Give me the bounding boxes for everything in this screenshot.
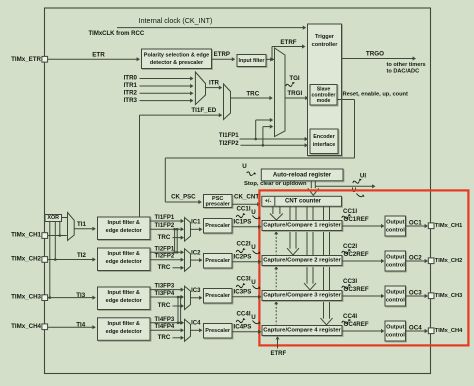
svg-text:OC1REF: OC1REF xyxy=(344,216,369,223)
svg-text:TI2FP2: TI2FP2 xyxy=(219,141,239,147)
svg-text:OC3: OC3 xyxy=(409,289,422,296)
block input filter and edge detector 4 xyxy=(99,319,152,342)
svg-text:TIMx_CH1: TIMx_CH1 xyxy=(435,223,463,229)
svg-text:edge detector: edge detector xyxy=(106,298,143,304)
svg-text:TI1: TI1 xyxy=(77,221,86,228)
svg-text:TIMx_CH2: TIMx_CH2 xyxy=(11,256,41,263)
svg-text:TIMx_CH2: TIMx_CH2 xyxy=(435,258,463,264)
svg-text:XOR: XOR xyxy=(47,215,59,221)
svg-text:TRC: TRC xyxy=(158,302,171,309)
svg-text:TRC: TRC xyxy=(246,90,259,97)
wire counter bus 4 (double line with open arrow) xyxy=(323,206,325,318)
svg-text:TGI: TGI xyxy=(289,75,300,82)
svg-text:IC2: IC2 xyxy=(191,251,201,257)
svg-text:prescaler: prescaler xyxy=(205,202,230,208)
block capture/compare 3 register xyxy=(263,292,343,302)
wire CK_INT to trigger controller xyxy=(117,27,305,29)
svg-text:TI3FP4: TI3FP4 xyxy=(155,291,175,297)
wire double arrow auto-reload to CNT counter xyxy=(310,181,312,189)
svg-text:Prescaler: Prescaler xyxy=(205,293,231,299)
pin TIMx_CH2 (output) xyxy=(428,258,434,264)
svg-text:TIMxCLK from RCC: TIMxCLK from RCC xyxy=(89,31,145,37)
svg-text:+/-: +/- xyxy=(265,199,272,205)
svg-text:OC2REF: OC2REF xyxy=(344,251,369,258)
svg-text:TRGO: TRGO xyxy=(366,50,384,57)
svg-text:Input filter &: Input filter & xyxy=(108,220,140,226)
block output control 3 xyxy=(386,287,407,307)
svg-text:CC4I: CC4I xyxy=(236,311,250,318)
svg-text:Encoder: Encoder xyxy=(313,134,335,140)
svg-text:edge detector: edge detector xyxy=(106,259,143,265)
svg-text:TIMx_CH3: TIMx_CH3 xyxy=(11,294,41,301)
wire counter bus 2 (double line with open arrow) xyxy=(289,206,291,248)
svg-text:ITR0: ITR0 xyxy=(124,75,138,82)
mux ITR selector xyxy=(195,72,205,105)
svg-text:Capture/Compare 2 register: Capture/Compare 2 register xyxy=(263,258,341,264)
block output control 1 xyxy=(386,217,407,237)
svg-text:CC1I: CC1I xyxy=(236,206,250,213)
svg-text:controller: controller xyxy=(312,42,339,48)
wire XOR output to TI1 mux xyxy=(62,217,68,219)
svg-text:Auto-reload register: Auto-reload register xyxy=(273,172,332,179)
svg-text:OC2: OC2 xyxy=(409,254,422,261)
svg-text:OC4REF: OC4REF xyxy=(344,321,369,328)
svg-text:IC3: IC3 xyxy=(191,288,201,294)
block input filter and edge detector 1 xyxy=(99,218,152,241)
block trigger controller xyxy=(309,25,343,157)
svg-text:control: control xyxy=(386,263,405,269)
svg-text:edge detector: edge detector xyxy=(106,228,143,234)
svg-text:control: control xyxy=(386,333,405,339)
svg-text:Input filter: Input filter xyxy=(239,58,265,64)
svg-text:Input filter &: Input filter & xyxy=(108,251,140,257)
svg-text:Capture/Compare 4 register: Capture/Compare 4 register xyxy=(263,328,341,334)
svg-text:Internal clock (CK_INT): Internal clock (CK_INT) xyxy=(139,17,213,25)
block capture/compare 1 register xyxy=(263,222,343,232)
svg-text:CK_PSC: CK_PSC xyxy=(171,194,196,200)
mux IC4 selector xyxy=(185,319,191,341)
svg-text:ITR: ITR xyxy=(209,79,219,86)
svg-text:TRGI: TRGI xyxy=(287,90,302,97)
svg-text:Output: Output xyxy=(386,255,404,261)
svg-text:UI: UI xyxy=(360,172,366,179)
red highlight box around capture/compare section xyxy=(259,190,468,345)
block input filter (ETR) xyxy=(238,56,267,68)
wire counter bus 3 (double line with open arrow) xyxy=(306,206,308,283)
svg-text:CC2I: CC2I xyxy=(236,241,250,248)
svg-text:Polarity selection & edge: Polarity selection & edge xyxy=(144,52,209,58)
svg-text:TRC: TRC xyxy=(158,234,171,241)
svg-text:IC2PS: IC2PS xyxy=(234,254,252,261)
svg-text:edge detector: edge detector xyxy=(106,329,143,335)
svg-text:ITR3: ITR3 xyxy=(124,97,138,104)
wire dashed compare feedback 3 xyxy=(275,304,277,325)
block encoder interface xyxy=(311,130,339,155)
block output control 4 xyxy=(386,322,407,342)
block capture/compare 2 register xyxy=(263,257,343,267)
svg-text:ETR: ETR xyxy=(92,52,105,59)
block input filter and edge detector 3 xyxy=(99,288,152,311)
svg-text:interface: interface xyxy=(313,142,335,148)
svg-text:TI4FP3: TI4FP3 xyxy=(155,317,175,323)
wire cross-connect TI3FP4/TI4FP3 xyxy=(177,297,179,323)
svg-text:TRC: TRC xyxy=(158,264,171,271)
svg-text:IC4: IC4 xyxy=(191,321,201,327)
svg-text:ITR1: ITR1 xyxy=(124,82,138,89)
wire counter bus 1 (double line with open arrow) xyxy=(272,206,274,214)
block polarity selection and edge detector and prescaler xyxy=(143,50,213,70)
wire XOR input from CH1 xyxy=(59,222,61,236)
svg-text:CC4I: CC4I xyxy=(343,313,357,320)
outer border frame of TIMx block xyxy=(45,8,431,374)
svg-text:TI1FP2: TI1FP2 xyxy=(155,223,175,229)
svg-text:to DAC/ADC: to DAC/ADC xyxy=(387,69,420,75)
wire ETRF to capture/compare 4 xyxy=(277,337,279,349)
svg-text:IC4PS: IC4PS xyxy=(234,324,252,331)
mux TRC selector xyxy=(224,84,231,120)
svg-text:TIMx_CH4: TIMx_CH4 xyxy=(435,328,463,334)
svg-text:control: control xyxy=(386,298,405,304)
wire dashed compare feedback 1 xyxy=(275,234,277,255)
pin TIMx_CH4 (output) xyxy=(428,328,434,334)
mux IC2 selector xyxy=(185,249,191,271)
svg-text:Output: Output xyxy=(386,325,404,331)
svg-text:CC3I: CC3I xyxy=(343,278,357,285)
svg-text:to other timers: to other timers xyxy=(387,62,426,68)
svg-text:CC3I: CC3I xyxy=(236,276,250,283)
wire ETRF to trigger controller and to TRGI mux xyxy=(266,58,274,60)
svg-text:OC3REF: OC3REF xyxy=(344,286,369,293)
svg-text:Prescaler: Prescaler xyxy=(205,223,231,229)
svg-text:TI1FP1: TI1FP1 xyxy=(219,133,239,139)
block prescaler IC4 xyxy=(205,325,234,340)
svg-text:TI1F_ED: TI1F_ED xyxy=(191,107,216,114)
svg-text:TIMx_ETR: TIMx_ETR xyxy=(11,56,41,63)
block output control 2 xyxy=(386,252,407,272)
svg-text:ITR2: ITR2 xyxy=(124,90,138,97)
wire TI1 from mux to input filter xyxy=(74,228,94,230)
svg-text:TIMx_CH4: TIMx_CH4 xyxy=(11,323,41,330)
wire XOR input from CH3 xyxy=(49,222,51,298)
svg-text:U: U xyxy=(251,244,256,251)
svg-text:ETRF: ETRF xyxy=(280,39,296,46)
svg-text:TI2FP1: TI2FP1 xyxy=(155,246,175,252)
svg-text:U: U xyxy=(242,163,247,170)
block CNT counter xyxy=(263,197,343,207)
svg-text:Trigger: Trigger xyxy=(315,34,335,40)
svg-text:control: control xyxy=(386,228,405,234)
svg-text:CNT counter: CNT counter xyxy=(285,199,322,205)
svg-text:TI4FP4: TI4FP4 xyxy=(155,324,175,330)
block input filter and edge detector 2 xyxy=(99,249,152,272)
svg-text:Capture/Compare 1 register: Capture/Compare 1 register xyxy=(263,223,341,229)
svg-text:TI2FP2: TI2FP2 xyxy=(155,254,175,260)
mux IC3 selector xyxy=(185,286,191,309)
svg-text:IC3PS: IC3PS xyxy=(234,289,252,296)
svg-text:Output: Output xyxy=(386,290,404,296)
svg-text:Output: Output xyxy=(386,220,404,226)
mux TI1 selector xyxy=(68,213,75,241)
svg-text:TRC: TRC xyxy=(158,334,171,341)
block capture/compare 4 register xyxy=(263,327,343,337)
svg-text:ETRF: ETRF xyxy=(270,351,286,357)
block prescaler IC1 xyxy=(205,220,234,235)
block prescaler IC2 xyxy=(205,255,234,270)
svg-text:TI3FP3: TI3FP3 xyxy=(155,284,175,290)
block PSC prescaler xyxy=(205,196,234,209)
svg-text:CC2I: CC2I xyxy=(343,243,357,250)
svg-text:OC4: OC4 xyxy=(409,324,422,331)
wire cross-connect TI1FP2/TI2FP1 xyxy=(174,229,176,252)
svg-text:Stop, clear or up/down: Stop, clear or up/down xyxy=(244,181,307,187)
block XOR xyxy=(45,215,62,222)
svg-text:U: U xyxy=(251,314,256,321)
svg-text:TIMx_CH1: TIMx_CH1 xyxy=(11,232,41,239)
svg-text:TIMx_CH3: TIMx_CH3 xyxy=(435,293,463,299)
svg-text:OC1: OC1 xyxy=(409,219,422,226)
svg-text:Capture/Compare 3 register: Capture/Compare 3 register xyxy=(263,293,341,299)
block auto-reload register xyxy=(262,170,344,182)
svg-text:U: U xyxy=(251,209,256,216)
svg-text:Reset, enable, up, count: Reset, enable, up, count xyxy=(343,91,409,97)
block slave controller mode xyxy=(311,86,338,107)
svg-text:U: U xyxy=(251,279,256,286)
mux IC1 selector xyxy=(185,218,191,242)
svg-text:CK_CNT: CK_CNT xyxy=(234,194,259,201)
pin TIMx_CH3 (output) xyxy=(428,293,434,299)
svg-text:CC1I: CC1I xyxy=(343,208,357,215)
block prescaler IC3 xyxy=(205,290,234,305)
svg-text:IC1PS: IC1PS xyxy=(234,219,252,226)
svg-text:TI2: TI2 xyxy=(77,252,86,259)
svg-text:mode: mode xyxy=(317,98,331,104)
svg-text:ETRP: ETRP xyxy=(214,51,230,58)
svg-text:Input filter &: Input filter & xyxy=(108,321,140,327)
svg-text:detector & prescaler: detector & prescaler xyxy=(150,60,204,66)
wire dashed compare feedback 2 xyxy=(275,269,277,290)
svg-text:Input filter &: Input filter & xyxy=(108,290,140,296)
svg-text:IC1: IC1 xyxy=(191,220,201,226)
wire XOR input from CH2 xyxy=(54,222,56,260)
svg-text:TI1FP1: TI1FP1 xyxy=(155,215,175,221)
pin TIMx_CH1 (output) xyxy=(428,223,434,229)
svg-text:Prescaler: Prescaler xyxy=(205,258,231,264)
mux TRGI selector (tall) xyxy=(275,48,286,137)
svg-text:Prescaler: Prescaler xyxy=(205,328,231,334)
